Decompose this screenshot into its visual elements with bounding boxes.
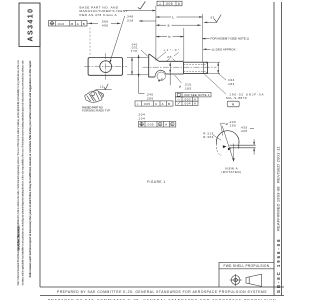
- svg-text:.005: .005: [143, 102, 151, 106]
- centerline of side view: [143, 66, 217, 68]
- detail right edge: [238, 145, 240, 149]
- view label: [221, 166, 241, 174]
- svg-text:TO PLACE A DOCUMENT ORDER: TO PLACE A DOCUMENT ORDER: [17, 225, 20, 251]
- svg-text:A: A: [232, 103, 235, 107]
- svg-text:⊥: ⊥: [137, 102, 140, 106]
- svg-text:.206: .206: [146, 97, 154, 101]
- svg-text:A: A: [194, 102, 196, 106]
- svg-text:—: —: [177, 97, 180, 101]
- svg-text:a: a: [168, 24, 170, 28]
- svg-text:.004: .004: [183, 102, 191, 106]
- thread end chamfer bottom: [206, 72, 208, 73]
- svg-text:FOR ASSEM'Y (SEE NOTE 1): FOR ASSEM'Y (SEE NOTE 1): [211, 37, 250, 41]
- tab top line: [230, 144, 256, 146]
- eye bottom edge: [149, 76, 155, 78]
- dimension .348/.318 hole dia label: [126, 15, 134, 23]
- R leader arrow: [158, 79, 161, 82]
- thread callout text: [226, 92, 264, 100]
- tab thickness dimension: [253, 139, 255, 154]
- svg-text:(ROTATED): (ROTATED): [221, 170, 241, 174]
- note: for assembly see note 1: [202, 37, 250, 41]
- svg-text:R: R: [161, 77, 164, 81]
- svg-text:.425: .425: [240, 129, 248, 133]
- leader from note to shoulder extension: [125, 10, 155, 12]
- right frame border line outer: [281, 2, 283, 295]
- label .435/.425: [240, 125, 254, 133]
- svg-text:b: b: [169, 35, 171, 39]
- svg-text:FWD SHELL PROPULSION: FWD SHELL PROPULSION: [224, 264, 270, 268]
- svg-text:A: A: [178, 2, 181, 6]
- extension line from shoulder up to top frame: [155, 6, 157, 61]
- svg-text:FORGING RADII TYP: FORGING RADII TYP: [82, 109, 111, 113]
- svg-text:REAFFIRMED 1993-08: REAFFIRMED 1993-08: [276, 186, 281, 231]
- hole circle: [100, 61, 112, 73]
- label R .313/.303 with leader: [203, 131, 221, 140]
- vertical centerline of front view: [105, 53, 107, 80]
- svg-text:12: 12: [100, 85, 104, 89]
- svg-text:M: M: [171, 123, 174, 127]
- note: 1 deg approx: [203, 47, 236, 51]
- svg-text:⌀: ⌀: [179, 85, 182, 89]
- svg-text:+1°-0°: +1°-0°: [164, 48, 180, 52]
- GD&T frame lower (position, 5 cells): [138, 121, 176, 127]
- svg-text:A: A: [165, 122, 168, 126]
- svg-text:A: A: [162, 102, 165, 106]
- svg-text:.104: .104: [137, 116, 145, 120]
- GD&T frame below side view (5 cells): [135, 101, 173, 106]
- front view outline: [88, 58, 122, 76]
- svg-text:M: M: [159, 123, 162, 127]
- svg-text:AS3410: AS3410: [27, 9, 34, 42]
- svg-text:.185: .185: [184, 87, 192, 91]
- svg-text:63: 63: [211, 15, 215, 19]
- svg-text:±1 DEG APPROX: ±1 DEG APPROX: [212, 47, 237, 51]
- section arrows filled: [223, 145, 227, 148]
- horizontal centerline of front view: [84, 66, 127, 68]
- dimension a: [156, 24, 201, 28]
- leader from .348 label to hole: [110, 16, 125, 63]
- svg-text:PER AS 478 Class A: PER AS 478 Class A: [80, 13, 118, 17]
- section line diagonal: [222, 126, 234, 162]
- vertical dimension eye height with elbow leader to label: [138, 55, 154, 101]
- svg-text:.190: .190: [228, 124, 236, 128]
- svg-text:R.303: R.303: [203, 135, 214, 139]
- footer rule upper: [40, 286, 284, 288]
- dimension .348/.318 head thickness line: [139, 20, 156, 22]
- title block icon: circle with crosshair: [230, 274, 242, 286]
- svg-text:L: L: [172, 15, 174, 19]
- shank dia dimension vertical with label: [169, 62, 171, 85]
- svg-text:.005: .005: [165, 2, 173, 6]
- shank top edge: [159, 60, 184, 62]
- svg-text:.060 SEE NOTE 1: .060 SEE NOTE 1: [183, 93, 210, 97]
- svg-text:voluntary, and its applicabili: voluntary, and its applicability and sui…: [22, 60, 25, 286]
- thread minor dia dashed top: [184, 63, 207, 65]
- groove radius indicator circle: [157, 72, 165, 80]
- extension line thread start: [183, 28, 185, 61]
- extension line thread runout top: [202, 14, 204, 62]
- title block box bottom-right: [219, 262, 274, 287]
- svg-text:MIL-S-8879: MIL-S-8879: [226, 96, 247, 100]
- svg-text:FIGURE 1: FIGURE 1: [147, 180, 166, 184]
- thread minor dia dashed bottom: [184, 70, 207, 72]
- detail outline solid arc: [216, 131, 239, 145]
- shank bottom edge: [166, 73, 184, 75]
- document number box AS3410: [19, 3, 40, 47]
- extension line dashed left of head: [89, 28, 91, 56]
- surface finish 63 check right of L: [204, 15, 221, 24]
- GD&T frame top (perpendicularity): [157, 1, 182, 6]
- dimension label .204/.104: [137, 112, 145, 120]
- dimension L: [156, 15, 203, 19]
- note text: base part no: [80, 5, 129, 17]
- thread end chamfer top: [206, 62, 208, 63]
- svg-text:.184: .184: [227, 82, 235, 86]
- svg-text:C: C: [155, 102, 158, 106]
- datum A box under callout: [227, 101, 239, 107]
- dimension .560/.490 width of head: [87, 20, 121, 28]
- dimension label .041/.031 TYP corner radius: [131, 42, 139, 53]
- sketch caption: [82, 105, 111, 112]
- svg-text:.010: .010: [57, 22, 65, 26]
- right frame border line inner: [273, 2, 275, 295]
- undercut groove arc: [155, 70, 166, 77]
- top chamfer: [150, 54, 159, 61]
- leader from TYP to eye corner: [141, 50, 148, 56]
- svg-text:B: B: [83, 22, 86, 26]
- dimension b: [156, 35, 184, 39]
- svg-text:TYP: TYP: [131, 49, 138, 53]
- 2X leaders: [167, 59, 171, 61]
- thread dia dimension right of thread: [208, 62, 235, 86]
- left frame border line: [39, 3, 41, 287]
- eye top edge short: [149, 53, 150, 55]
- groove dia label .215/.185: [175, 75, 192, 91]
- svg-text:.318: .318: [126, 19, 134, 23]
- footer rule lower: [40, 295, 284, 297]
- thread runout line: [202, 62, 204, 73]
- svg-text:REVISED 2001-11: REVISED 2001-11: [276, 146, 281, 183]
- svg-text:⊥: ⊥: [159, 2, 163, 6]
- title block icon: cone: [246, 274, 262, 286]
- GD&T frame left (position on hole): [49, 21, 88, 26]
- tab bottom line: [230, 147, 256, 149]
- label dia .200/.190 with elbow leader: [221, 120, 237, 136]
- detail dashed arc: [216, 144, 221, 156]
- thread callout leader: [205, 74, 227, 94]
- GD&T composite frame 3 rows: [176, 92, 212, 105]
- svg-text:PREPARED BY SAE COMMITTEE E-25: PREPARED BY SAE COMMITTEE E-25, GENERAL …: [57, 290, 267, 294]
- svg-text:SAE reviews each technical rep: SAE reviews each technical report at lea…: [28, 60, 32, 278]
- vertical line of section: [232, 144, 235, 162]
- svg-text:M: M: [71, 22, 74, 26]
- svg-text:2X: 2X: [167, 55, 172, 59]
- thread section rectangle: [184, 62, 208, 73]
- svg-text:A: A: [77, 22, 80, 26]
- vertical dimension between views (head height): [127, 57, 148, 75]
- leader from angle label to chamfer: [157, 52, 166, 59]
- surface finish check symbol top: [138, 2, 146, 9]
- svg-text:.005: .005: [146, 122, 154, 126]
- svg-text:.490: .490: [100, 24, 108, 28]
- svg-text:SB-8C 1968-08: SB-8C 1968-08: [276, 239, 281, 293]
- svg-text:B: B: [168, 102, 171, 106]
- eye left edge: [148, 54, 150, 77]
